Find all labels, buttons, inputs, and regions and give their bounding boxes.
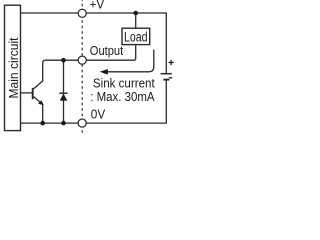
svg-text:: Max. 30mA: : Max. 30mA — [90, 90, 155, 104]
svg-text:Output: Output — [90, 44, 124, 58]
svg-text:+V: +V — [90, 0, 105, 12]
svg-text:Load: Load — [124, 30, 148, 45]
svg-text:Main circuit: Main circuit — [7, 37, 21, 98]
svg-text:0V: 0V — [91, 108, 106, 122]
svg-text:Sink current: Sink current — [93, 77, 155, 91]
